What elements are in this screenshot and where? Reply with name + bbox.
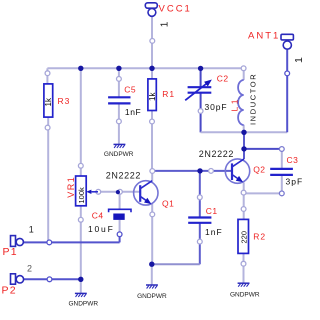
label Q1 xyxy=(162,199,174,209)
wire R3 top stub xyxy=(46,68,48,84)
pin number 1 of P1 xyxy=(29,225,34,235)
value 3pF of C3 xyxy=(286,177,304,187)
value 100k of VR1 xyxy=(77,187,86,204)
label C2 xyxy=(217,74,229,84)
svg-text:VCC1: VCC1 xyxy=(159,4,192,15)
svg-text:GNDPWR: GNDPWR xyxy=(230,291,260,298)
value INDUCTOR of L1 xyxy=(248,73,257,125)
wire C1 bottom xyxy=(152,223,200,265)
pin Q2 base xyxy=(209,169,214,174)
port ANT1 xyxy=(281,34,293,49)
wire C2 stubs xyxy=(200,68,202,132)
junction C4 at Q1 base xyxy=(116,190,120,194)
pin R2 top xyxy=(241,207,246,212)
wire left column VR1 branch xyxy=(80,68,82,293)
pin VR1 bottom xyxy=(78,217,83,222)
label VR1 xyxy=(66,176,76,198)
capacitor C5 xyxy=(108,97,130,103)
potentiometer VR1 xyxy=(76,176,98,206)
pin C5 bottom xyxy=(117,119,122,124)
transistor Q1 xyxy=(134,181,158,205)
pin VCC1 wire xyxy=(150,39,155,44)
label C5 xyxy=(124,85,136,95)
junction bus at C5 xyxy=(116,66,121,71)
wire Q1 collector to Q2 base xyxy=(152,170,232,172)
value 220 of R2 xyxy=(240,231,249,244)
wire R3 bottom to P1 net xyxy=(47,117,49,243)
svg-text:1: 1 xyxy=(293,57,305,63)
wire L1 stubs xyxy=(243,68,245,132)
svg-text:220: 220 xyxy=(240,231,249,244)
wire ANT net xyxy=(286,50,288,133)
wire P2 net xyxy=(24,278,81,280)
svg-text:100k: 100k xyxy=(77,187,86,204)
svg-text:Q2: Q2 xyxy=(253,165,265,175)
pin Q1 base xyxy=(118,189,123,194)
svg-text:L1: L1 xyxy=(230,97,240,111)
wire Q1 emitter to ground node xyxy=(151,204,153,285)
pin C2 bottom xyxy=(198,109,203,114)
port P1 xyxy=(11,236,24,247)
svg-text:GNDPWR: GNDPWR xyxy=(68,301,98,308)
pin C4 bottom xyxy=(117,232,122,237)
value 30pF of C2 xyxy=(205,102,228,112)
svg-text:P1: P1 xyxy=(3,246,18,258)
pin number 1 of ANT1 xyxy=(293,57,305,63)
ground GNDPWR under C5 xyxy=(104,144,134,158)
label R2 xyxy=(253,232,266,242)
wire P1 net xyxy=(23,234,119,242)
pin Q2 emitter xyxy=(241,190,246,195)
label C4 xyxy=(92,211,104,221)
svg-text:10uF: 10uF xyxy=(88,224,115,234)
svg-text:2N2222: 2N2222 xyxy=(106,171,141,181)
variable capacitor C2 xyxy=(185,80,212,101)
svg-text:R3: R3 xyxy=(58,96,71,106)
pin number 1 of VCC1 xyxy=(159,21,170,27)
svg-text:VR1: VR1 xyxy=(66,176,76,198)
pin C3 top xyxy=(279,147,284,152)
junction bus at C2 xyxy=(198,66,203,71)
junction bus at VR1 column xyxy=(78,66,83,71)
svg-text:1k: 1k xyxy=(148,92,157,101)
capacitor C1 xyxy=(188,218,211,223)
ground GNDPWR under R2 xyxy=(230,283,260,298)
svg-text:1: 1 xyxy=(159,21,170,27)
pin R3 top xyxy=(45,71,50,76)
junction bus at R1 xyxy=(149,66,154,71)
pin C1 top xyxy=(197,195,202,200)
svg-text:1: 1 xyxy=(29,225,34,235)
svg-text:C5: C5 xyxy=(124,85,136,95)
svg-text:30pF: 30pF xyxy=(205,102,228,112)
svg-text:GNDPWR: GNDPWR xyxy=(137,293,167,300)
label P1 xyxy=(3,246,18,258)
wire C3 bottom to emitter xyxy=(244,192,282,194)
value 1nF of C5 xyxy=(125,107,141,117)
junction Q2 collector xyxy=(241,146,246,151)
pin R1 bottom xyxy=(150,119,155,124)
pin P2 wire at R3 column xyxy=(47,277,52,282)
pin P1 wire at R3 xyxy=(47,240,52,245)
inductor L1 xyxy=(238,80,244,125)
svg-text:1nF: 1nF xyxy=(205,227,223,237)
label L1 xyxy=(230,97,240,111)
svg-text:2N2222: 2N2222 xyxy=(199,149,234,159)
polarized capacitor C4 xyxy=(109,209,131,220)
junction emitter ground node xyxy=(149,262,154,267)
value 1nF of C1 xyxy=(205,227,223,237)
value 10uF of C4 xyxy=(88,224,115,234)
pin L1 top xyxy=(241,66,246,71)
svg-text:1nF: 1nF xyxy=(125,107,141,117)
svg-text:ANT1: ANT1 xyxy=(248,31,280,42)
wire C4 top drop and bottom stub xyxy=(119,192,121,233)
pin ANT wire xyxy=(285,71,290,76)
label C3 xyxy=(287,155,299,165)
label VCC1 xyxy=(159,4,192,15)
wire R1 to Q1 collector xyxy=(151,110,153,181)
resistor R1 xyxy=(148,79,156,111)
svg-text:1k: 1k xyxy=(44,97,53,106)
svg-text:C3: C3 xyxy=(287,155,299,165)
svg-text:R1: R1 xyxy=(162,89,175,99)
transistor Q2 xyxy=(225,159,249,183)
svg-text:3pF: 3pF xyxy=(286,177,304,187)
wire VR1 wiper to Q1 base xyxy=(98,191,141,193)
designation 2N2222 of Q2 xyxy=(199,149,234,159)
label C1 xyxy=(206,206,218,216)
resistor R2 xyxy=(238,219,249,253)
svg-text:C1: C1 xyxy=(206,206,218,216)
junction Q2 base node xyxy=(197,168,202,173)
port P2 xyxy=(11,274,24,284)
wire node to C1 top xyxy=(199,171,201,218)
wire VCC1 drop to bus xyxy=(151,16,153,79)
svg-text:C4: C4 xyxy=(92,211,104,221)
pin R2 bottom xyxy=(241,261,246,266)
value 1k of R3 xyxy=(44,97,53,106)
pin C1 bottom xyxy=(197,239,202,244)
capacitor C3 xyxy=(270,169,293,175)
wire C3 stubs xyxy=(281,149,283,193)
wire top bus (VCC net) xyxy=(47,67,243,69)
wire Q2 emitter to R2 and ground xyxy=(243,183,245,284)
designation 2N2222 of Q1 xyxy=(106,171,141,181)
pin R3 bottom xyxy=(45,125,50,130)
value 1k of R1 xyxy=(148,92,157,101)
pin VR1 top xyxy=(78,163,83,168)
wire C5 branch to ground xyxy=(118,68,120,144)
label R1 xyxy=(162,89,175,99)
pin C5 top xyxy=(117,77,122,82)
wire Q2 collector to C3 xyxy=(244,148,282,150)
pin VR1 wiper xyxy=(96,189,101,194)
svg-text:P2: P2 xyxy=(2,285,17,297)
pin Q1 collector xyxy=(150,169,155,174)
label R3 xyxy=(58,96,71,106)
label Q2 xyxy=(253,165,265,175)
pin number 2 of P2 xyxy=(27,264,32,274)
pin C3 bottom xyxy=(279,191,284,196)
junction tank bottom at L1 xyxy=(241,130,246,135)
svg-text:C2: C2 xyxy=(217,74,229,84)
port VCC1 xyxy=(145,3,157,16)
wire tank to Q2 collector xyxy=(243,132,245,159)
label ANT1 xyxy=(248,31,280,42)
svg-text:GNDPWR: GNDPWR xyxy=(104,151,134,158)
svg-text:INDUCTOR: INDUCTOR xyxy=(248,73,257,125)
ground GNDPWR bottom left xyxy=(68,293,98,307)
label P2 xyxy=(2,285,17,297)
ground GNDPWR bottom middle xyxy=(137,285,167,300)
svg-text:Q1: Q1 xyxy=(162,199,174,209)
pin Q1 emitter xyxy=(150,212,155,217)
junction P2 ground node xyxy=(78,277,83,282)
svg-text:2: 2 xyxy=(27,264,32,274)
svg-text:R2: R2 xyxy=(253,232,266,242)
wire tank bottom xyxy=(201,131,288,133)
resistor R3 xyxy=(44,84,53,117)
